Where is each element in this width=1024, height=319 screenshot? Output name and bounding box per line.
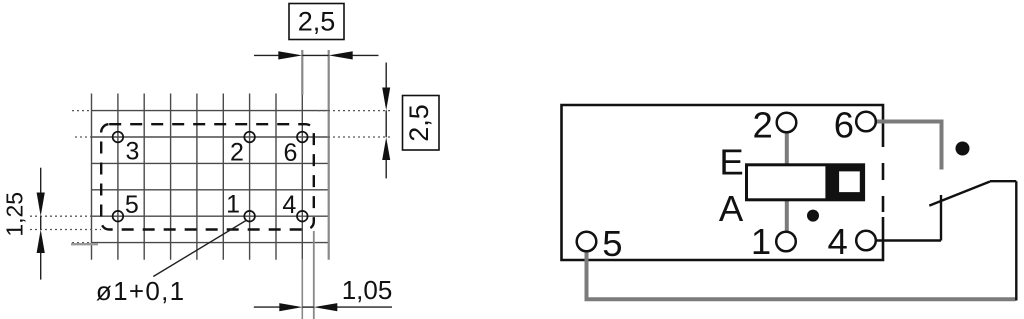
svg-text:2,5: 2,5: [404, 104, 434, 142]
svg-text:2,5: 2,5: [298, 7, 336, 37]
svg-text:2: 2: [752, 105, 772, 146]
svg-text:1: 1: [751, 221, 771, 262]
svg-text:1,05: 1,05: [342, 275, 393, 305]
svg-text:6: 6: [284, 139, 298, 167]
svg-text:5: 5: [125, 191, 139, 219]
svg-text:4: 4: [282, 191, 296, 219]
svg-text:1: 1: [226, 191, 240, 219]
svg-text:2: 2: [230, 138, 244, 166]
svg-text:E: E: [719, 142, 743, 183]
svg-text:4: 4: [828, 221, 848, 262]
svg-text:1,25: 1,25: [1, 192, 27, 237]
svg-text:ø1+0,1: ø1+0,1: [96, 276, 185, 306]
svg-text:3: 3: [125, 138, 139, 166]
svg-text:6: 6: [834, 105, 854, 146]
svg-text:A: A: [719, 188, 744, 229]
svg-text:5: 5: [602, 223, 622, 264]
